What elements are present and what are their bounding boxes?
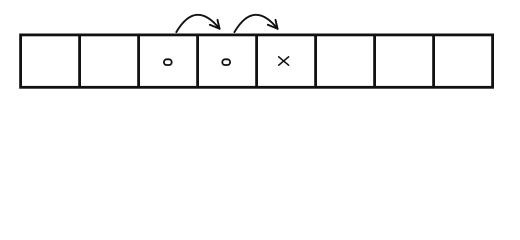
cell divider 6 (373, 35, 376, 87)
curved arrow 2 arc (cell 4 to cell 5) (234, 15, 277, 32)
curved arrow 1 head (210, 20, 220, 29)
cell divider 5 (314, 35, 317, 87)
curved arrow 2 head (268, 20, 278, 29)
cell divider 7 (432, 35, 435, 87)
cell divider 1 (78, 35, 81, 87)
curved arrow 1 arc (cell 3 to cell 4) (176, 15, 219, 32)
symbol x in cell 5 (279, 57, 289, 65)
symbol o in cell 4 (222, 59, 230, 65)
cell divider 2 (137, 35, 140, 87)
array outer box (21, 35, 493, 87)
symbol o in cell 3 (164, 59, 172, 65)
cell divider 3 (196, 35, 199, 87)
cell divider 4 (255, 35, 258, 87)
